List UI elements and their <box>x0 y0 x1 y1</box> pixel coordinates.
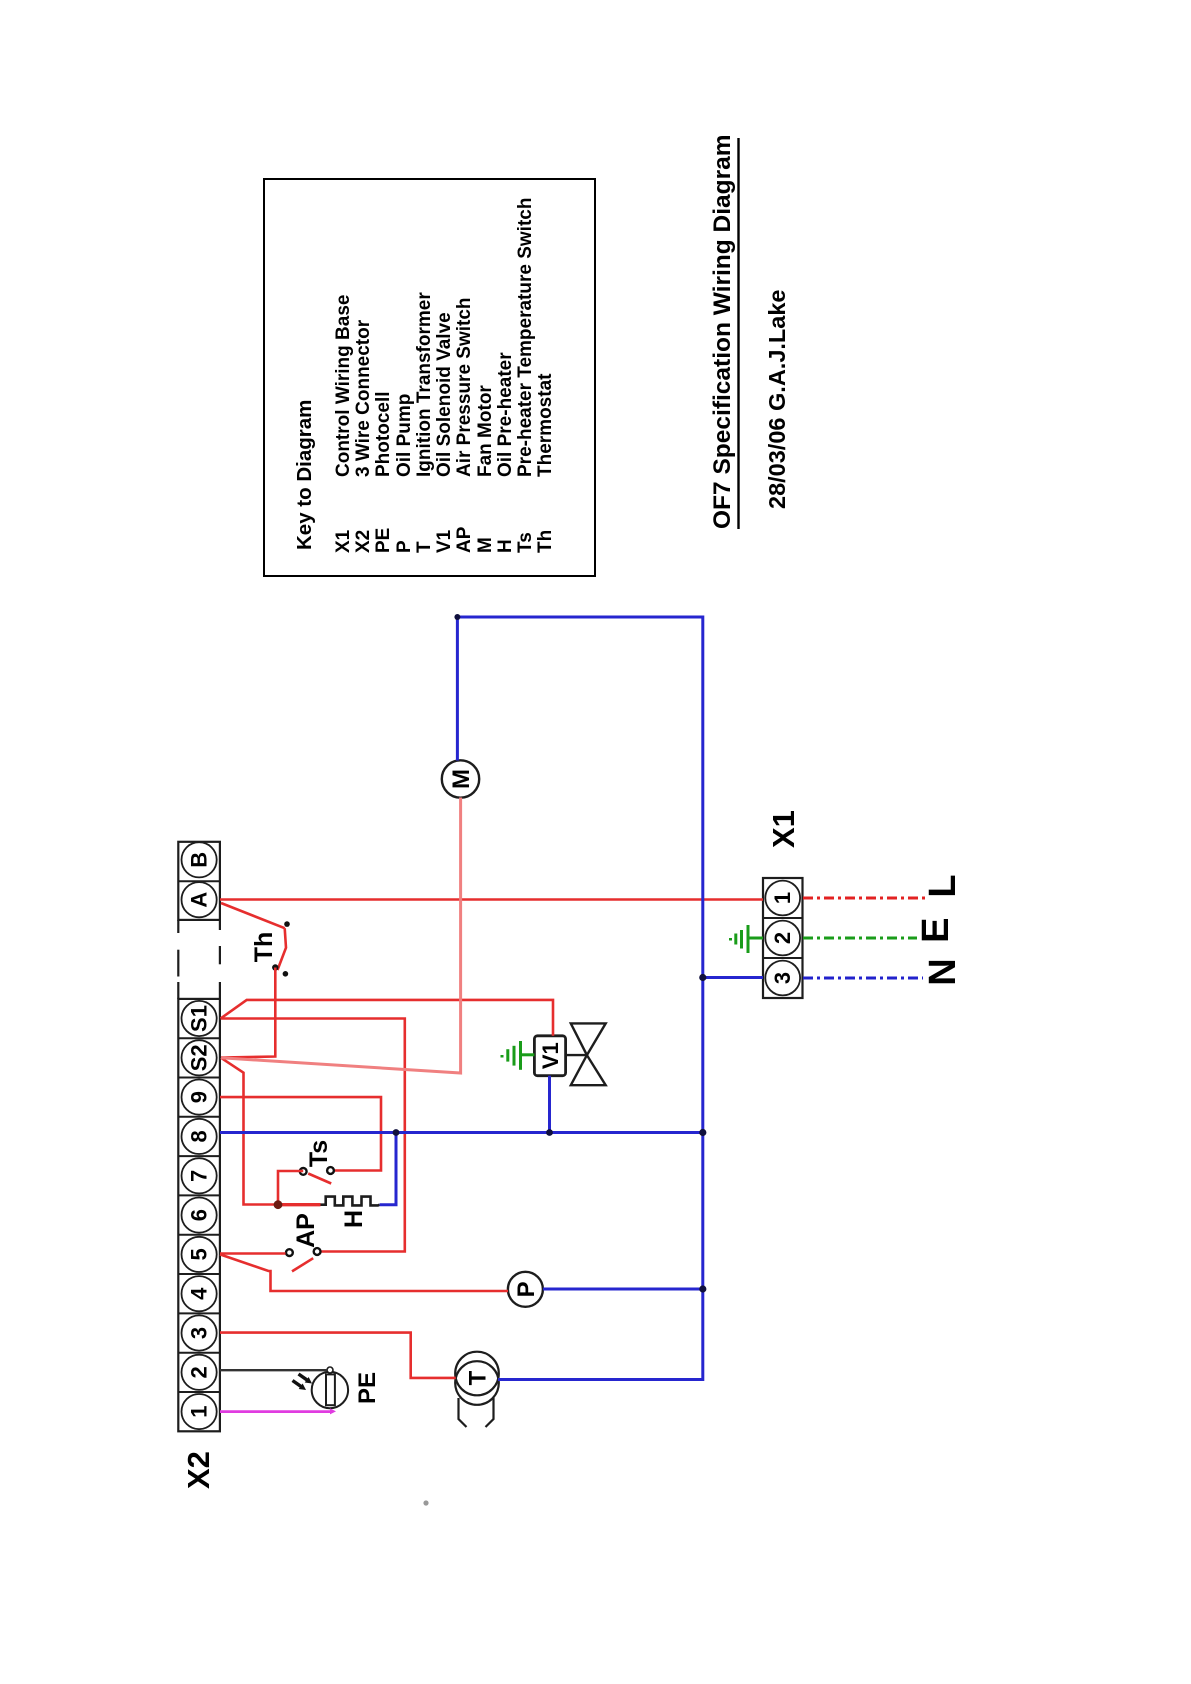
oil pump P <box>508 1272 543 1307</box>
wire 9 to Ts (red) <box>220 1097 381 1170</box>
wire Th to S2 (red) <box>221 968 275 1058</box>
svg-text:X2: X2 <box>181 1451 216 1489</box>
svg-text:H: H <box>495 539 516 553</box>
svg-text:6: 6 <box>187 1209 212 1221</box>
svg-text:Fan Motor: Fan Motor <box>475 385 496 477</box>
X2 terminal circles 1-9,S2,S1 <box>182 1001 217 1429</box>
oil solenoid valve V1 box <box>534 1036 565 1076</box>
svg-text:Oil Solenoid Valve: Oil Solenoid Valve <box>434 312 455 477</box>
wire A to Th contact (red diagonal) <box>221 903 285 928</box>
svg-text:5: 5 <box>187 1248 212 1260</box>
earth symbol at V1 <box>502 1041 534 1070</box>
svg-text:2: 2 <box>187 1366 212 1378</box>
junction dot V1/8 <box>546 1129 553 1136</box>
svg-text:X1: X1 <box>766 810 801 848</box>
junction dot Ts/H/S2 <box>274 1200 283 1209</box>
svg-text:OF7 Specification Wiring Diagr: OF7 Specification Wiring Diagram <box>709 134 736 529</box>
X2 pin numbers <box>187 1005 212 1418</box>
svg-text:Ts: Ts <box>305 1140 333 1167</box>
X2 strip break rails and dashes <box>178 920 220 999</box>
PE terminal ring <box>327 1367 333 1373</box>
magenta arrow tip <box>330 1408 336 1414</box>
wire 5 to P (red) <box>220 1254 508 1291</box>
AP contact rings <box>314 1248 321 1255</box>
earth symbol at X1-2 <box>731 925 764 953</box>
svg-text:3 Wire Connector: 3 Wire Connector <box>353 319 374 477</box>
svg-text:Ts: Ts <box>515 532 536 553</box>
wire S1 to V1 (red) <box>221 1000 553 1036</box>
svg-text:PE: PE <box>373 528 394 553</box>
svg-text:Control Wiring Base: Control Wiring Base <box>333 295 354 477</box>
svg-text:Ignition Transformer: Ignition Transformer <box>414 292 435 477</box>
svg-text:A: A <box>187 892 212 908</box>
wire 5 to AP (red) <box>220 1252 286 1255</box>
svg-text:E: E <box>915 918 957 943</box>
svg-text:T: T <box>414 541 435 553</box>
wire H to 8-wire (blue) <box>380 1133 396 1205</box>
title <box>709 134 790 529</box>
svg-text:V1: V1 <box>434 529 455 553</box>
stray mark <box>423 1500 428 1505</box>
photocell PE <box>312 1372 348 1408</box>
L red dash-dot line <box>803 897 927 900</box>
svg-text:S1: S1 <box>187 1005 212 1032</box>
X2 A-B block <box>178 842 220 920</box>
wire 3 to T (red) <box>220 1333 456 1378</box>
svg-text:M: M <box>475 537 496 553</box>
wire 8 to blue bus (blue) <box>220 1131 703 1134</box>
pre-heater temperature switch Ts blade <box>308 1174 331 1184</box>
svg-text:V1: V1 <box>538 1042 563 1069</box>
svg-text:Oil Pump: Oil Pump <box>394 394 415 477</box>
junction dot 8/bus <box>699 1129 706 1136</box>
svg-text:3: 3 <box>770 972 795 984</box>
junction dot P/bus <box>699 1285 706 1292</box>
connector X1 block <box>763 878 803 998</box>
X1 terminal circles 3,2,1 <box>765 881 800 996</box>
svg-text:Th: Th <box>250 932 278 963</box>
PE light arrows <box>291 1371 314 1393</box>
svg-text:PE: PE <box>354 1372 381 1404</box>
ignition transformer T <box>455 1352 499 1427</box>
svg-text:1: 1 <box>770 892 795 904</box>
L E N labels <box>915 874 964 985</box>
svg-text:Pre-heater Temperature Switch: Pre-heater Temperature Switch <box>515 198 536 477</box>
wire S2 to junction (red) <box>221 1058 278 1205</box>
svg-text:AP: AP <box>292 1213 320 1248</box>
svg-text:Key to Diagram: Key to Diagram <box>293 400 316 550</box>
wire junction to H (red) <box>278 1203 321 1206</box>
svg-text:Air Pressure Switch: Air Pressure Switch <box>454 297 475 477</box>
wire P to bus (blue) <box>543 1288 703 1291</box>
svg-text:P: P <box>394 540 415 553</box>
E green dash-dot line <box>803 937 917 940</box>
svg-text:4: 4 <box>187 1287 212 1300</box>
thermostat Th blade <box>278 928 287 970</box>
junction dot X1-3/bus <box>699 974 706 981</box>
svg-text:P: P <box>513 1281 540 1297</box>
svg-text:9: 9 <box>187 1091 212 1103</box>
svg-text:3: 3 <box>187 1327 212 1339</box>
svg-text:2: 2 <box>770 932 795 944</box>
key box <box>264 179 595 576</box>
heater H element <box>320 1197 380 1206</box>
svg-text:Th: Th <box>535 530 556 553</box>
svg-text:S2: S2 <box>187 1044 212 1071</box>
blue bus main (blue) <box>457 617 702 1380</box>
wire V1 to 8-wire (blue) <box>548 1076 551 1133</box>
svg-text:AP: AP <box>454 526 475 553</box>
wire S1 to AP contact (red) <box>221 1019 405 1252</box>
junction dot H/8 <box>393 1129 400 1136</box>
svg-text:X1: X1 <box>333 529 354 553</box>
terminal circles A,B <box>182 842 217 917</box>
svg-text:M: M <box>448 769 475 789</box>
junction dot bus corner <box>454 614 460 620</box>
svg-text:N: N <box>922 958 964 985</box>
svg-text:1: 1 <box>187 1405 212 1417</box>
wire A to X1-1 (red) <box>220 898 763 901</box>
terminal strip X2 main block <box>178 999 220 1431</box>
svg-text:8: 8 <box>187 1130 212 1142</box>
svg-text:X2: X2 <box>353 530 374 553</box>
svg-text:28/03/06 G.A.J.Lake: 28/03/06 G.A.J.Lake <box>764 290 790 509</box>
svg-text:Oil Pre-heater: Oil Pre-heater <box>495 352 516 477</box>
fan motor M <box>442 760 479 797</box>
wire S2 to M (salmon) <box>221 798 461 1074</box>
air pressure switch AP blade <box>292 1258 313 1271</box>
svg-text:T: T <box>465 1370 492 1385</box>
svg-text:Thermostat: Thermostat <box>535 373 556 477</box>
wire bus to X1-3 (blue) <box>703 976 763 979</box>
svg-text:Photocell: Photocell <box>373 391 394 477</box>
svg-text:B: B <box>187 852 212 868</box>
svg-text:H: H <box>340 1210 368 1228</box>
Th contact dots <box>284 921 290 927</box>
wire Ts to junction (red) <box>278 1171 303 1205</box>
N blue dash-dot line <box>803 977 923 980</box>
svg-text:L: L <box>922 874 964 897</box>
Ts contact rings <box>327 1167 334 1174</box>
wire 1 to PE (magenta) <box>220 1410 332 1413</box>
valve bowtie <box>566 1023 606 1085</box>
svg-text:7: 7 <box>187 1170 212 1182</box>
wire 2 to PE (black) <box>220 1369 327 1371</box>
